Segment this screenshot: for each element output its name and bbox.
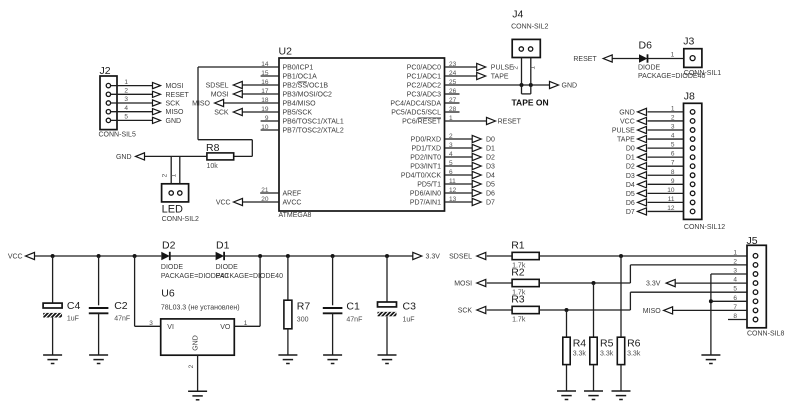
svg-text:PULSE: PULSE xyxy=(612,128,635,135)
resistor R3 xyxy=(512,306,539,313)
svg-text:D6: D6 xyxy=(626,200,635,207)
svg-text:R6: R6 xyxy=(627,338,641,350)
svg-text:D1: D1 xyxy=(216,239,230,251)
wire U2 D4 xyxy=(445,174,473,176)
wire U6 gnd pin xyxy=(197,355,199,391)
arrow MISO xyxy=(215,99,224,106)
wire U6 input vertical xyxy=(134,256,136,326)
connector LED box xyxy=(162,184,189,202)
overline SS xyxy=(298,81,307,83)
svg-text:R1: R1 xyxy=(511,239,525,251)
wire bus vertical from pin14 xyxy=(197,67,199,140)
svg-text:1: 1 xyxy=(733,249,737,256)
junction J5 pin6 xyxy=(709,299,713,303)
wire U2 D1 xyxy=(445,147,473,149)
svg-text:J3: J3 xyxy=(683,36,694,48)
arrow D7 xyxy=(472,198,481,205)
J8 pin 5 circle xyxy=(690,146,695,151)
svg-text:PD7/AIN1: PD7/AIN1 xyxy=(410,200,441,207)
svg-text:J8: J8 xyxy=(684,91,695,103)
wire U2 D2 xyxy=(445,156,473,158)
svg-text:VCC: VCC xyxy=(8,254,23,261)
wire D6 to J3 xyxy=(648,58,684,60)
connector J2 pin 4 circle xyxy=(106,110,110,114)
svg-text:PB6/TOSC1/XTAL1: PB6/TOSC1/XTAL1 xyxy=(283,119,344,126)
arrow D4 xyxy=(638,181,647,188)
svg-text:2: 2 xyxy=(162,173,169,177)
svg-text:CONN-SIL8: CONN-SIL8 xyxy=(747,331,784,338)
wire power rail segment 1 xyxy=(35,255,162,257)
wire J8 pin 9 xyxy=(648,183,684,185)
svg-text:D7: D7 xyxy=(626,209,635,216)
arrow D3 xyxy=(472,162,481,169)
arrow D2 xyxy=(638,163,647,170)
svg-text:D2: D2 xyxy=(626,164,635,171)
svg-text:3.3V: 3.3V xyxy=(646,281,661,288)
wire RESET to D6 xyxy=(612,58,639,60)
svg-text:1uF: 1uF xyxy=(67,316,79,323)
svg-text:1: 1 xyxy=(124,79,128,86)
arrow VCC xyxy=(234,198,243,205)
wire J5 pin3 xyxy=(711,273,747,275)
svg-text:PC2/ADC2: PC2/ADC2 xyxy=(407,83,441,90)
wire R5 top xyxy=(593,283,595,337)
J4 pin 2 circle xyxy=(528,47,532,51)
junction R7 xyxy=(286,254,290,258)
svg-text:MISO: MISO xyxy=(643,308,661,315)
svg-text:PB5/SCK: PB5/SCK xyxy=(283,110,313,117)
wire LED pin2 vertical xyxy=(170,156,172,190)
LED pin 1 circle xyxy=(178,191,182,195)
wire U2 pin 17 xyxy=(242,93,279,95)
wire J8 pin 10 xyxy=(648,192,684,194)
svg-text:2: 2 xyxy=(124,88,128,95)
wire bus vertical to R8 xyxy=(251,140,253,157)
svg-text:PB3/MOSI/OC2: PB3/MOSI/OC2 xyxy=(283,92,333,99)
svg-text:47nF: 47nF xyxy=(114,316,130,323)
wire step up pin2 xyxy=(629,265,631,283)
junction R6 top xyxy=(619,254,623,258)
arrow GND xyxy=(550,81,559,88)
svg-text:PB7/TOSC2/XTAL2: PB7/TOSC2/XTAL2 xyxy=(283,128,344,135)
svg-text:PD6/AIN0: PD6/AIN0 xyxy=(410,191,441,198)
svg-text:D3: D3 xyxy=(626,173,635,180)
connector J2 box xyxy=(100,76,117,130)
svg-text:CONN-SIL2: CONN-SIL2 xyxy=(511,23,548,30)
svg-text:DIODE: DIODE xyxy=(161,264,184,271)
wire C4 top xyxy=(52,256,54,303)
wire GND to R8 left lead xyxy=(145,155,207,157)
wire C3 top xyxy=(386,256,388,302)
svg-text:3.3V: 3.3V xyxy=(426,254,441,261)
wire R8 right lead xyxy=(234,155,253,157)
svg-text:D1: D1 xyxy=(626,155,635,162)
svg-text:DIODE: DIODE xyxy=(638,64,661,71)
svg-text:PC1/ADC1: PC1/ADC1 xyxy=(407,74,441,81)
ground xyxy=(89,354,108,356)
capacitor C4 xyxy=(43,303,62,308)
resistor R1 xyxy=(512,252,539,259)
svg-text:3: 3 xyxy=(124,96,128,103)
svg-text:VO: VO xyxy=(220,324,231,331)
wire to J5 pin2 xyxy=(630,264,747,266)
wire U2 D5 xyxy=(445,183,473,185)
wire U2 pin 15 stub xyxy=(261,75,279,77)
svg-text:PB2/SS/OC1B: PB2/SS/OC1B xyxy=(283,83,329,90)
svg-text:2: 2 xyxy=(733,258,737,265)
ground xyxy=(188,390,207,392)
arrow D1 xyxy=(638,154,647,161)
svg-text:D6: D6 xyxy=(639,40,653,52)
wire U2 pin 10 stub xyxy=(261,129,279,131)
svg-text:PD3/INT1: PD3/INT1 xyxy=(410,164,441,171)
arrow SCK xyxy=(233,108,242,115)
svg-text:CONN-SIL5: CONN-SIL5 xyxy=(99,132,136,139)
svg-text:TAPE ON: TAPE ON xyxy=(512,98,549,108)
svg-text:11: 11 xyxy=(668,196,675,203)
svg-text:3.3k: 3.3k xyxy=(600,351,614,358)
svg-text:PD2/INT0: PD2/INT0 xyxy=(410,155,441,162)
J8 pin 3 circle xyxy=(690,128,695,133)
svg-text:RESET: RESET xyxy=(166,92,190,99)
svg-text:R8: R8 xyxy=(206,142,220,154)
arrow VCC xyxy=(638,117,647,124)
svg-text:3: 3 xyxy=(671,124,675,131)
diode D1 xyxy=(216,252,225,260)
connector J3 box xyxy=(684,49,702,68)
J5 pin 5 circle xyxy=(753,290,758,295)
svg-text:C2: C2 xyxy=(114,300,128,312)
svg-text:3: 3 xyxy=(149,320,153,327)
capacitor C1 xyxy=(323,307,343,309)
arrow SDSEL xyxy=(233,81,242,88)
svg-text:CONN-SIL2: CONN-SIL2 xyxy=(162,216,199,223)
svg-text:PC6/RESET: PC6/RESET xyxy=(402,119,442,126)
svg-text:12: 12 xyxy=(667,205,675,212)
wire J5 pin8 stub xyxy=(728,319,747,321)
wire U2 pin 26 stub xyxy=(445,93,460,95)
svg-text:4: 4 xyxy=(671,133,675,140)
wire U2 pin 1 RESET xyxy=(445,120,487,122)
arrow SDSEL xyxy=(477,252,486,259)
svg-text:MISO: MISO xyxy=(192,101,210,108)
J4 pin 1 circle xyxy=(519,47,523,51)
svg-text:PC0/ADC0: PC0/ADC0 xyxy=(407,65,441,72)
svg-text:PB0/ICP1: PB0/ICP1 xyxy=(283,65,314,72)
svg-text:LED: LED xyxy=(162,204,183,216)
op: U2 ATMEGA8 box xyxy=(279,58,445,211)
wire R2 to step xyxy=(539,282,630,284)
svg-text:U2: U2 xyxy=(279,46,293,58)
svg-text:SCK: SCK xyxy=(166,101,181,108)
wire U2 pin 18 xyxy=(224,102,279,104)
wire J8 pin 3 xyxy=(648,129,684,131)
J5 pin 1 circle xyxy=(753,254,758,259)
J8 pin 7 circle xyxy=(690,164,695,169)
svg-text:RESET: RESET xyxy=(573,56,597,63)
arrow D6 xyxy=(638,199,647,206)
svg-text:TAPE: TAPE xyxy=(491,74,509,81)
svg-text:PC3/ADC3: PC3/ADC3 xyxy=(407,92,441,99)
J5 pin 8 circle xyxy=(753,317,758,322)
arrow D0 xyxy=(472,135,481,142)
wire C1 top xyxy=(332,256,334,305)
svg-text:2: 2 xyxy=(512,66,519,70)
svg-text:PD0/RXD: PD0/RXD xyxy=(411,137,441,144)
J8 pin 12 circle xyxy=(690,209,695,214)
svg-text:3.3k: 3.3k xyxy=(573,351,587,358)
wire R3 to step xyxy=(539,309,630,311)
junction R4 top xyxy=(565,308,569,312)
wire J2 pin 1 xyxy=(111,85,153,87)
svg-text:2: 2 xyxy=(188,364,195,368)
wire to J5 pin5 xyxy=(630,291,747,293)
junction R5 top xyxy=(592,281,596,285)
J8 pin 4 circle xyxy=(690,137,695,142)
svg-text:GND: GND xyxy=(193,335,200,351)
wire J8 pin 2 xyxy=(648,120,684,122)
capacitor C2 xyxy=(89,307,109,309)
J5 pin 7 circle xyxy=(753,308,758,313)
arrow 3.3V xyxy=(666,280,675,287)
svg-text:C3: C3 xyxy=(403,301,417,313)
J8 pin 2 circle xyxy=(690,119,695,124)
ground xyxy=(701,354,720,356)
wire C4 bottom xyxy=(52,318,54,356)
svg-text:D3: D3 xyxy=(486,164,495,171)
svg-text:1: 1 xyxy=(671,105,675,112)
svg-text:GND: GND xyxy=(562,83,578,90)
svg-text:AREF: AREF xyxy=(283,191,302,198)
svg-text:SCK: SCK xyxy=(214,110,229,117)
regulator U6 box xyxy=(161,319,235,355)
svg-text:SDSEL: SDSEL xyxy=(206,83,229,90)
wire C1 bottom xyxy=(332,313,334,355)
LED pin 2 circle xyxy=(169,191,173,195)
svg-text:D2: D2 xyxy=(486,155,495,162)
wire R6 top xyxy=(620,256,622,337)
J3 pin 1 circle xyxy=(690,56,695,61)
wire LED pin1 vertical xyxy=(179,156,181,190)
arrow D3 xyxy=(638,172,647,179)
diode D2 xyxy=(161,252,170,260)
svg-text:D2: D2 xyxy=(162,239,176,251)
svg-text:1.7k: 1.7k xyxy=(512,317,526,324)
junction U6 output xyxy=(258,254,262,258)
svg-text:5: 5 xyxy=(671,142,675,149)
svg-text:R7: R7 xyxy=(297,301,311,313)
J8 pin 6 circle xyxy=(690,155,695,160)
junction C3 xyxy=(385,254,389,258)
J8 pin 8 circle xyxy=(690,173,695,178)
wire R4 top xyxy=(566,310,568,337)
svg-text:PB4/MISO: PB4/MISO xyxy=(283,101,317,108)
arrow D6 xyxy=(472,189,481,196)
svg-text:1: 1 xyxy=(529,66,536,70)
wire J2 pin 4 xyxy=(111,111,153,113)
svg-text:R4: R4 xyxy=(573,338,587,350)
svg-text:2: 2 xyxy=(671,114,675,121)
svg-text:PC5/ADC5/SCL: PC5/ADC5/SCL xyxy=(391,110,441,117)
svg-text:GND: GND xyxy=(116,154,132,161)
junction C1 xyxy=(331,254,335,258)
svg-text:PD4/T0/XCK: PD4/T0/XCK xyxy=(401,173,441,180)
resistor R7 xyxy=(284,300,292,329)
wire R1 to J5 pin1 xyxy=(539,255,747,257)
svg-text:D0: D0 xyxy=(486,137,495,144)
J5 pin 2 circle xyxy=(753,263,758,268)
svg-text:R2: R2 xyxy=(511,266,525,278)
svg-text:D4: D4 xyxy=(486,173,495,180)
wire J5 pin3 gnd vertical xyxy=(710,274,712,355)
arrow GND xyxy=(136,153,145,160)
svg-text:GND: GND xyxy=(166,118,182,125)
wire J4 pin1 vertical xyxy=(521,58,523,94)
resistor R8 xyxy=(207,153,234,160)
arrow D4 xyxy=(472,171,481,178)
arrow to MISO xyxy=(153,109,161,115)
arrow D5 xyxy=(638,190,647,197)
wire U2 pin 21 stub xyxy=(260,192,279,194)
wire C3 bottom xyxy=(386,316,388,355)
svg-text:D6: D6 xyxy=(486,191,495,198)
wire U2 pin 28 stub xyxy=(445,111,460,113)
svg-text:DIODE: DIODE xyxy=(216,264,239,271)
wire U2 pin 20 xyxy=(243,201,280,203)
arrow to RESET xyxy=(153,91,161,97)
connector J5 box xyxy=(747,245,766,327)
wire J8 pin 5 xyxy=(648,147,684,149)
wire step up pin5 xyxy=(629,292,631,310)
resistor R5 xyxy=(590,337,597,364)
svg-text:10: 10 xyxy=(667,187,675,194)
svg-text:VI: VI xyxy=(167,324,174,331)
junction C2 xyxy=(97,254,101,258)
wire SCK to R3 xyxy=(487,309,512,311)
wire J2 pin 3 xyxy=(111,102,153,104)
J8 pin 10 circle xyxy=(690,191,695,196)
arrow PULSE xyxy=(638,126,647,133)
wire U2 D3 xyxy=(445,165,473,167)
svg-text:1: 1 xyxy=(244,320,248,327)
resistor R4 xyxy=(563,337,570,364)
svg-text:PULSE: PULSE xyxy=(491,65,514,72)
svg-text:PD5/T1: PD5/T1 xyxy=(417,182,441,189)
ground xyxy=(378,354,397,356)
svg-text:R3: R3 xyxy=(511,293,525,305)
arrow to SCK xyxy=(153,100,161,106)
svg-text:D5: D5 xyxy=(486,182,495,189)
J8 pin 9 circle xyxy=(690,182,695,187)
wire J8 pin 12 xyxy=(648,210,684,212)
svg-text:AVCC: AVCC xyxy=(283,200,302,207)
arrow MOSI xyxy=(477,279,486,286)
arrow D5 xyxy=(472,180,481,187)
wire U2 pin 24 TAPE xyxy=(445,75,477,77)
svg-text:PB1/OC1A: PB1/OC1A xyxy=(283,74,318,81)
svg-text:MOSI: MOSI xyxy=(211,92,229,99)
wire R7 top xyxy=(287,256,289,300)
arrow RESET xyxy=(487,117,496,124)
wire J8 pin 4 xyxy=(648,138,684,140)
wire J8 pin 11 xyxy=(648,201,684,203)
wire U6 output horizontal xyxy=(234,325,260,327)
connector J4 box xyxy=(512,39,540,57)
svg-text:9: 9 xyxy=(671,178,675,185)
wire U6 output vertical xyxy=(259,256,261,326)
wire MISO to J5 pin7 xyxy=(673,309,747,311)
wire U2 pin 14 to bus xyxy=(198,66,279,68)
svg-text:MOSI: MOSI xyxy=(454,281,472,288)
arrow SCK xyxy=(477,306,486,313)
wire SDSEL to R1 xyxy=(487,255,512,257)
svg-text:VCC: VCC xyxy=(216,200,231,207)
wire J8 pin 7 xyxy=(648,165,684,167)
J8 pin 11 circle xyxy=(690,200,695,205)
svg-text:MOSI: MOSI xyxy=(166,83,184,90)
junction xyxy=(520,83,524,87)
svg-text:MISO: MISO xyxy=(166,109,184,116)
arrow D7 xyxy=(638,208,647,215)
wire MOSI to R2 xyxy=(487,282,512,284)
J5 pin 4 circle xyxy=(753,281,758,286)
wire J8 pin 1 xyxy=(648,111,684,113)
svg-text:J4: J4 xyxy=(512,9,523,21)
arrow RESET xyxy=(603,55,612,62)
wire J8 pin 6 xyxy=(648,156,684,158)
svg-text:CONN-SIL1: CONN-SIL1 xyxy=(684,70,721,77)
svg-text:D1: D1 xyxy=(486,146,495,153)
wire U2 pin 25 GND rail xyxy=(445,84,550,86)
svg-text:C1: C1 xyxy=(346,301,360,313)
svg-text:TAPE: TAPE xyxy=(617,137,635,144)
ground xyxy=(612,390,631,392)
wire 3.3V to J5 pin4 xyxy=(675,282,747,284)
diode D6 xyxy=(639,54,648,62)
wire power rail segment 3 (3.3V) xyxy=(224,255,413,257)
svg-text:PACKAGE=DIODE40: PACKAGE=DIODE40 xyxy=(216,273,283,280)
svg-text:8: 8 xyxy=(671,169,675,176)
arrow D0 xyxy=(638,145,647,152)
junction xyxy=(529,83,533,87)
svg-text:4: 4 xyxy=(124,105,128,112)
svg-text:GND: GND xyxy=(619,109,635,116)
wire J4 shunt bottom xyxy=(522,93,531,95)
junction C4 xyxy=(51,254,55,258)
wire J2 pin 5 xyxy=(111,119,153,121)
svg-text:J2: J2 xyxy=(100,65,111,77)
junction U6 input xyxy=(133,254,137,258)
svg-text:ATMEGA8: ATMEGA8 xyxy=(279,212,312,219)
connector J2 pin 1 circle xyxy=(106,83,110,87)
wire J8 pin 8 xyxy=(648,174,684,176)
wire C2 bottom xyxy=(98,313,100,355)
arrow VCC xyxy=(26,252,35,259)
svg-text:5: 5 xyxy=(124,114,128,121)
wire U2 pin 23 PULSE xyxy=(445,66,477,68)
svg-text:C4: C4 xyxy=(67,300,81,312)
wire R4 bottom xyxy=(566,365,568,391)
arrow MISO xyxy=(664,307,673,314)
connector J2 pin 5 circle xyxy=(106,118,110,122)
wire R6 bottom xyxy=(620,365,622,391)
ground xyxy=(323,354,342,356)
svg-text:SCK: SCK xyxy=(458,308,473,315)
arrow D2 xyxy=(472,153,481,160)
ground xyxy=(43,354,62,356)
wire U2 D7 xyxy=(445,201,473,203)
svg-text:RESET: RESET xyxy=(498,119,522,126)
